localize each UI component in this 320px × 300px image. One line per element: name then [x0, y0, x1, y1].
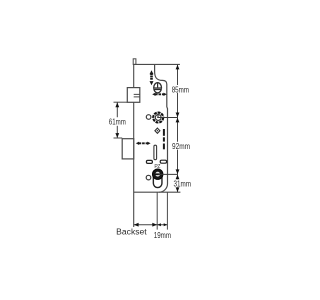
euro cylinder throat [153, 176, 162, 188]
faceplate top tab [133, 59, 136, 65]
deadbolt [122, 139, 134, 159]
label 92mm [171, 142, 190, 151]
svg-text:Backset: Backset [116, 227, 147, 236]
hook adjuster double arrow [150, 70, 154, 85]
adjustable cam oval [154, 83, 162, 93]
backset dimension line [134, 224, 168, 226]
61mm extension tick top [114, 101, 128, 103]
latch bolt [127, 88, 140, 103]
label 85mm [171, 85, 190, 94]
euro cylinder key slot [155, 173, 161, 175]
follower centre leader line [157, 116, 177, 118]
faceplate vertical line [133, 60, 135, 227]
euro cylinder core [155, 172, 160, 177]
label 61mm [108, 118, 127, 127]
svg-text:85mm: 85mm [172, 86, 190, 95]
right dimension line [177, 64, 179, 192]
dim arrows at follower centre [176, 113, 180, 118]
label 31mm [172, 179, 191, 188]
svg-text:19mm: 19mm [154, 231, 171, 240]
dim arrows at cylinder centre [176, 169, 180, 174]
handle follower [153, 113, 163, 123]
vertical slot [154, 145, 157, 160]
backset extension line (right) [166, 192, 168, 229]
dim arrow top (85mm) [176, 65, 180, 70]
cylinder centre leader line [159, 173, 178, 175]
svg-text:31mm: 31mm [174, 179, 192, 188]
snib diamond [155, 128, 160, 133]
case bottom edge with 31mm extension tick [134, 191, 181, 193]
case top-right S-curve and right edge [155, 64, 168, 192]
screw hole upper [146, 115, 151, 120]
deadbolt travel arrow [136, 142, 151, 145]
screw slot left [146, 160, 152, 163]
svg-text:92mm: 92mm [172, 142, 190, 151]
61mm dimension line [116, 102, 118, 138]
backset extension line (centre) [156, 192, 158, 229]
latch divider lines [134, 94, 140, 97]
61mm extension tick bottom [114, 137, 123, 139]
case top edge with 85mm extension line [134, 63, 180, 65]
screw slot right [160, 160, 166, 163]
segmented strip [163, 129, 165, 149]
euro cylinder body [152, 169, 163, 180]
svg-text:61mm: 61mm [109, 118, 126, 127]
screw hole lower [146, 175, 151, 180]
dim arrow bottom (31mm) [176, 187, 180, 192]
cam travel arrow (under oval) [152, 93, 167, 96]
